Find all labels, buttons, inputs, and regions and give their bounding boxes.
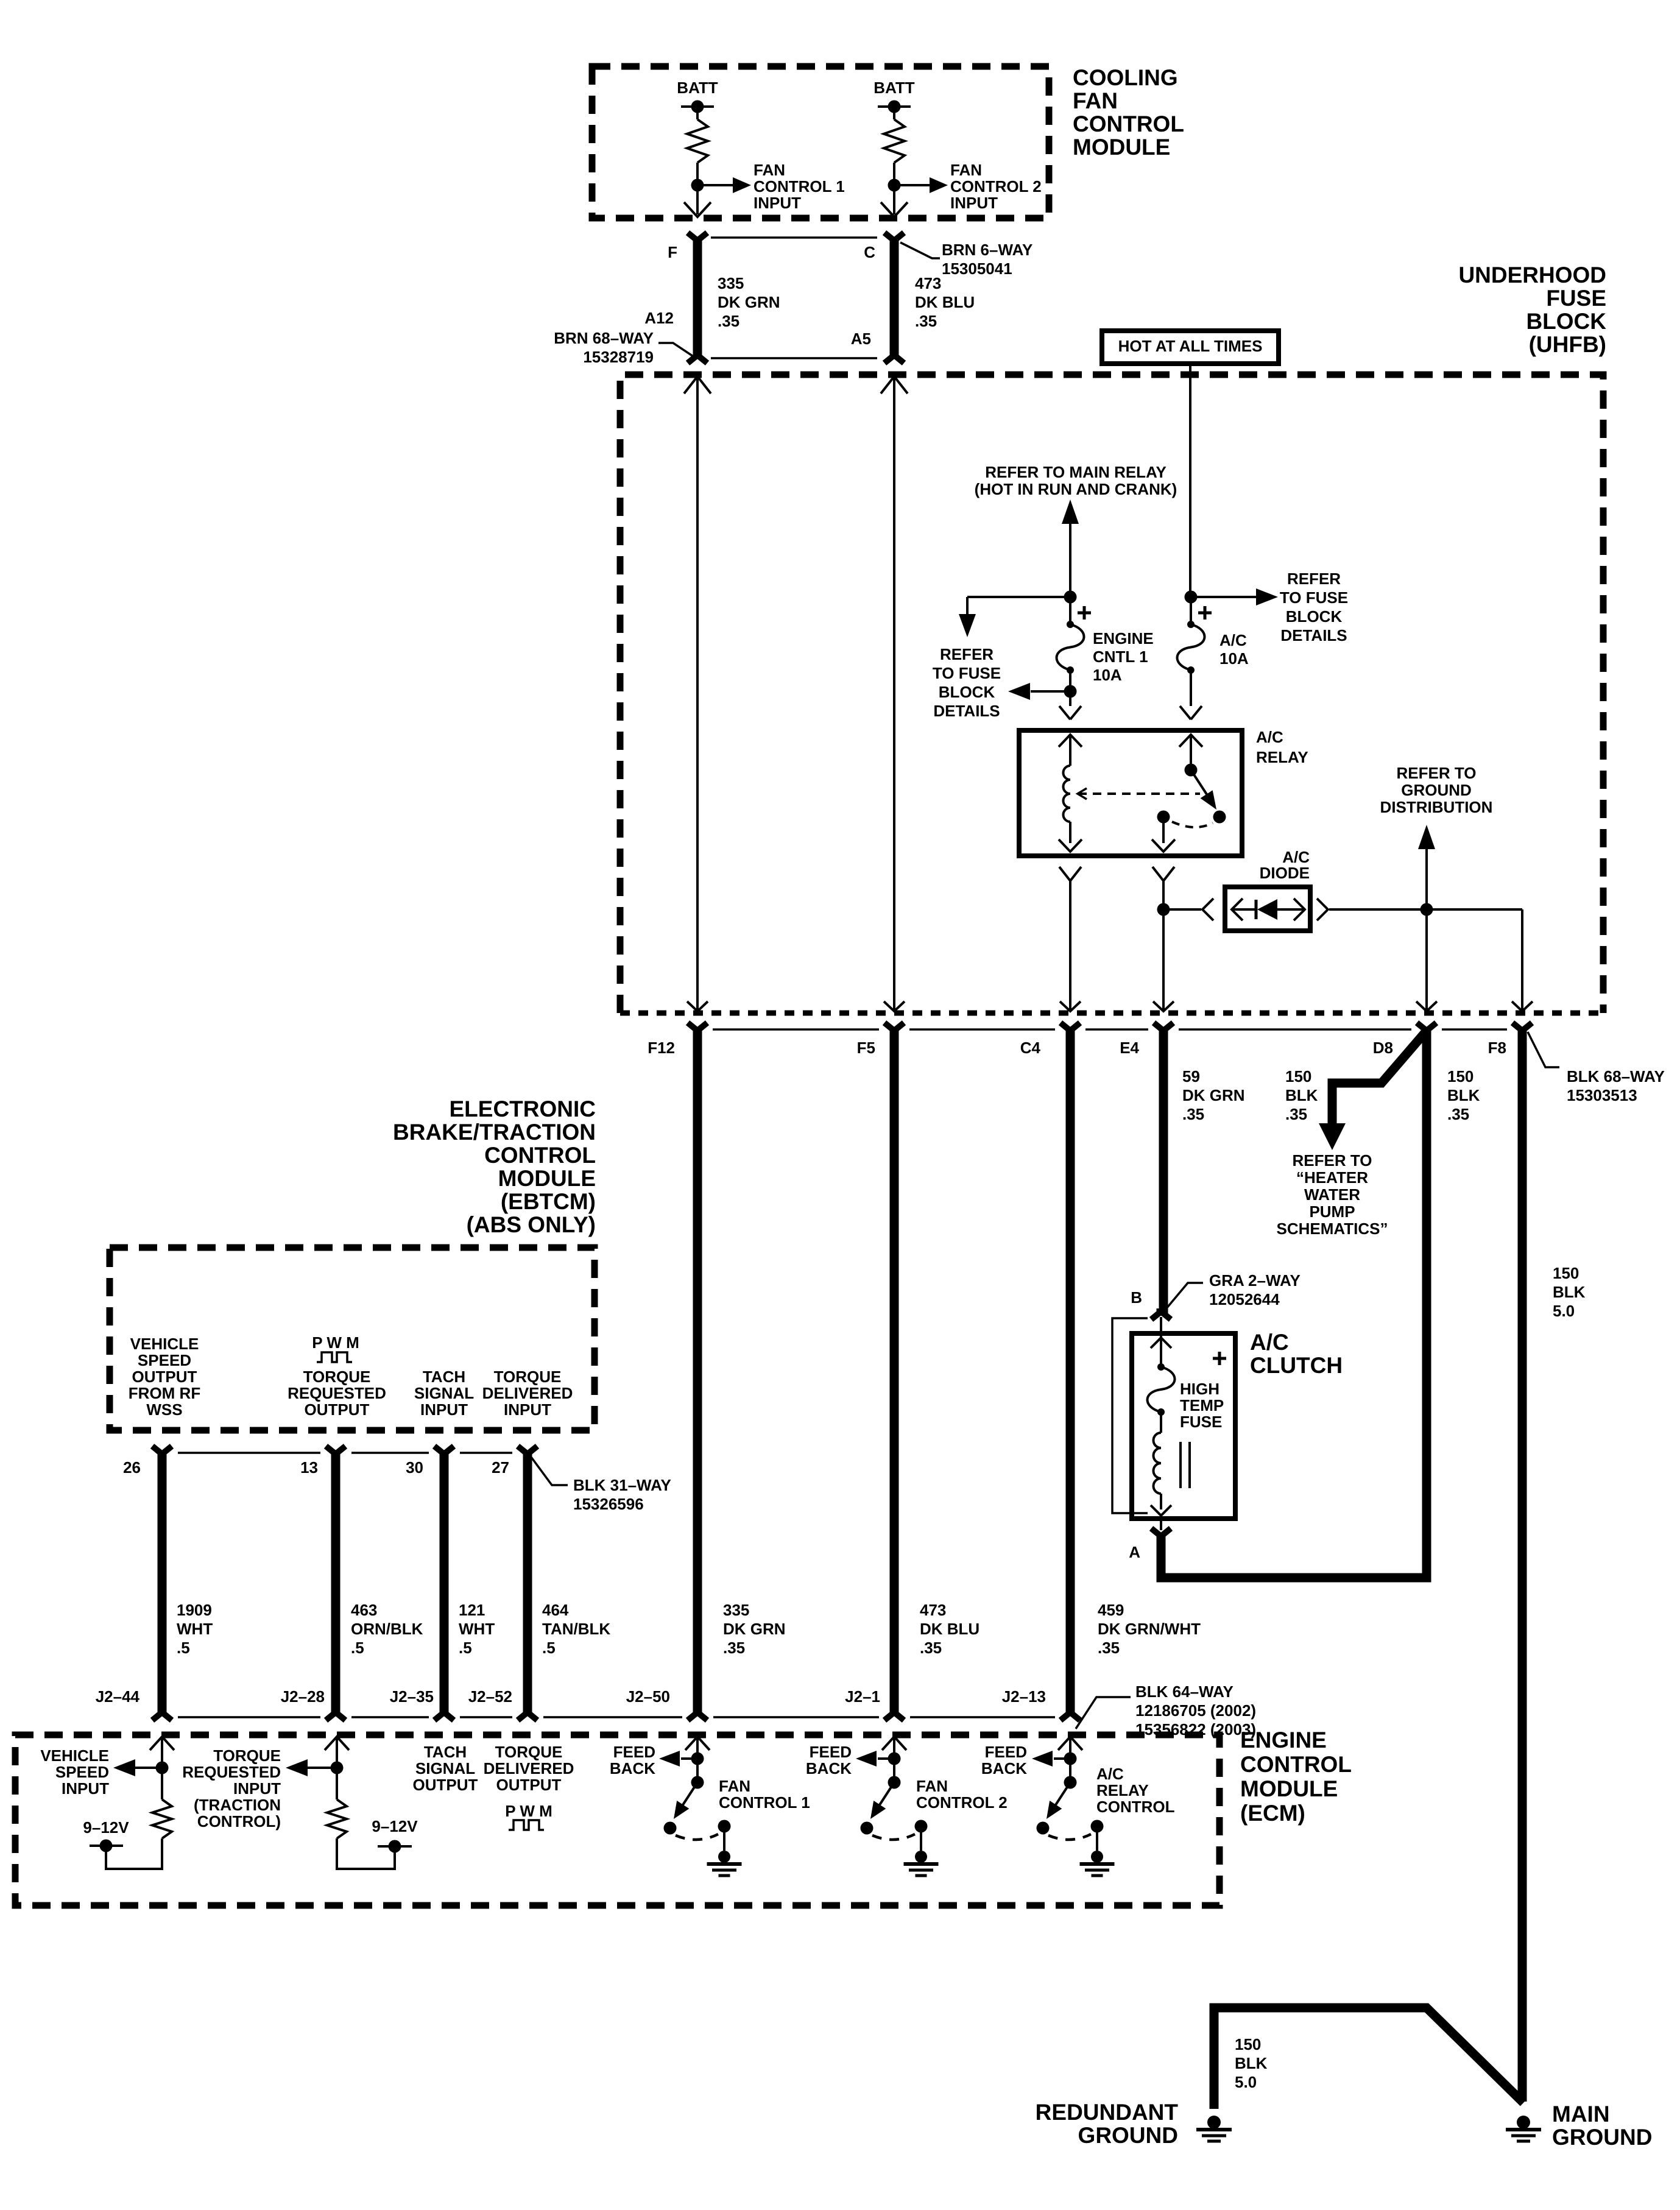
svg-text:REQUESTED: REQUESTED xyxy=(182,1763,281,1781)
svg-text:.5: .5 xyxy=(351,1639,364,1657)
svg-text:CONTROL 1: CONTROL 1 xyxy=(719,1793,810,1812)
wire: D8 down / clutch A return xyxy=(1161,1031,1427,1578)
label: wire 150 BLK 5.0 (ground) xyxy=(1235,2035,1268,2091)
label: wire 150 BLK .35 (D8) xyxy=(1285,1067,1318,1123)
connector pin 30 (EBTCM) xyxy=(406,1446,454,1477)
power tag: HOT AT ALL TIMES xyxy=(1102,331,1279,364)
svg-text:1909: 1909 xyxy=(177,1601,212,1619)
svg-text:INPUT: INPUT xyxy=(420,1400,468,1419)
polarity + clutch xyxy=(1213,1352,1226,1365)
label: A/C RELAY xyxy=(1256,728,1308,766)
wire: junction down to D8 pin xyxy=(1416,916,1437,1011)
svg-text:CONTROL 2: CONTROL 2 xyxy=(950,177,1042,196)
wire: engine cntl output to relay pin xyxy=(1059,697,1081,719)
svg-text:.35: .35 xyxy=(920,1639,942,1657)
svg-text:HIGH: HIGH xyxy=(1180,1380,1219,1398)
svg-text:5.0: 5.0 xyxy=(1235,2073,1257,2091)
label: wire 459 DK GRN/WHT .35 xyxy=(1098,1601,1201,1657)
label: REFER TO GROUND DISTRIBUTION xyxy=(1380,764,1493,816)
connector pin B (GRA 2-WAY) xyxy=(1131,1288,1171,1319)
svg-text:12052644: 12052644 xyxy=(1209,1290,1280,1308)
connector pin F8 xyxy=(1488,1023,1532,1057)
svg-text:A/C: A/C xyxy=(1250,1330,1289,1355)
svg-text:FEED: FEED xyxy=(613,1743,655,1761)
label: wire 150 BLK 5.0 (F8 lower) xyxy=(1553,1264,1586,1320)
label: FAN CONTROL 2 INPUT xyxy=(950,161,1042,212)
svg-text:A: A xyxy=(1129,1543,1140,1561)
svg-text:BACK: BACK xyxy=(981,1759,1027,1778)
wire: pin 26 to J2-44 (1909 WHT) xyxy=(158,1453,167,1713)
svg-text:F12: F12 xyxy=(648,1039,675,1057)
port label: TORQUE DELIVERED INPUT xyxy=(482,1368,573,1419)
svg-text:10A: 10A xyxy=(1093,666,1122,684)
svg-text:VEHICLE: VEHICLE xyxy=(130,1335,199,1353)
wire: relay coil pin to C4 xyxy=(1059,867,1081,1011)
label: wire 335 DK GRN .35 xyxy=(718,274,780,330)
polarity + engine cntl fuse xyxy=(1078,606,1091,620)
svg-text:BLK 31–WAY: BLK 31–WAY xyxy=(573,1476,671,1494)
svg-text:REDUNDANT: REDUNDANT xyxy=(1036,2100,1179,2125)
wire: junction to diode connector xyxy=(1163,908,1201,911)
port label: FEED BACK (3) xyxy=(981,1743,1027,1778)
label: wire 473 DK BLU .35 (lower) xyxy=(920,1601,979,1657)
relay contact travel arc (dashed) xyxy=(1172,822,1213,827)
wire: pin 30 to J2-35 (121 WHT) xyxy=(440,1453,449,1713)
switch: fan control 2 driver xyxy=(856,1737,939,1876)
svg-text:(ECM): (ECM) xyxy=(1240,1801,1305,1826)
label: A/C CLUTCH xyxy=(1250,1330,1343,1378)
svg-text:E4: E4 xyxy=(1120,1039,1139,1057)
wire: branch to fuse block details (right) xyxy=(1191,588,1278,605)
diode A/C (cathode left) xyxy=(1233,899,1304,920)
svg-text:SPEED: SPEED xyxy=(138,1351,191,1369)
svg-text:J2–1: J2–1 xyxy=(845,1687,880,1706)
label: MAIN GROUND xyxy=(1552,2102,1652,2150)
connector pin F12 xyxy=(648,1023,707,1057)
ground: REDUNDANT GROUND xyxy=(1196,2116,1232,2141)
svg-text:GROUND: GROUND xyxy=(1552,2125,1652,2150)
label: wire 1909 WHT .5 xyxy=(177,1601,213,1657)
svg-text:TORQUE: TORQUE xyxy=(495,1743,563,1761)
svg-text:15303513: 15303513 xyxy=(1567,1086,1637,1104)
svg-text:CONTROL 2: CONTROL 2 xyxy=(916,1793,1008,1812)
node: engine cntl fuse output xyxy=(1064,670,1077,698)
svg-text:DK GRN: DK GRN xyxy=(718,293,780,311)
svg-text:SIGNAL: SIGNAL xyxy=(415,1759,475,1778)
label: FAN CONTROL 1 INPUT xyxy=(754,161,845,212)
svg-text:10A: 10A xyxy=(1219,649,1249,668)
node BATT 2 xyxy=(874,79,915,113)
svg-text:CLUTCH: CLUTCH xyxy=(1250,1353,1343,1378)
svg-text:TO FUSE: TO FUSE xyxy=(1280,588,1348,607)
svg-text:WHT: WHT xyxy=(177,1620,213,1638)
pin label F xyxy=(668,243,677,261)
svg-text:150: 150 xyxy=(1285,1067,1311,1086)
svg-text:D8: D8 xyxy=(1373,1039,1393,1057)
wire: diode to ground distribution node xyxy=(1329,908,1427,911)
wire: F8 to main ground (150 BLK) xyxy=(1518,1029,1527,2102)
port label: FEED BACK (2) xyxy=(806,1743,852,1778)
svg-text:F8: F8 xyxy=(1488,1039,1506,1057)
svg-text:REQUESTED: REQUESTED xyxy=(288,1384,386,1402)
node: engine cntl feed junction xyxy=(1064,591,1077,604)
pin label C xyxy=(864,243,875,261)
resistor fan control 1 pull-up xyxy=(687,113,708,179)
svg-text:TO FUSE: TO FUSE xyxy=(933,664,1001,682)
svg-text:.35: .35 xyxy=(1098,1639,1120,1657)
wire: to main relay (arrow up) xyxy=(1062,500,1079,597)
label: REFER TO FUSE BLOCK DETAILS (right) xyxy=(1280,570,1348,644)
svg-text:J2–44: J2–44 xyxy=(96,1687,140,1706)
port label: VEHICLE SPEED INPUT xyxy=(40,1746,109,1798)
label: REFER TO HEATER WATER PUMP SCHEMATICS xyxy=(1277,1151,1388,1238)
pin label A5 xyxy=(851,330,871,348)
svg-text:FUSE: FUSE xyxy=(1180,1413,1222,1431)
label: A/C RELAY CONTROL xyxy=(1096,1765,1175,1816)
node BATT 1 xyxy=(677,79,718,113)
wire: F5 feed-through xyxy=(881,376,908,1011)
svg-text:C4: C4 xyxy=(1020,1039,1041,1057)
svg-text:DETAILS: DETAILS xyxy=(933,702,1000,720)
label: wire 473 DK BLU .35 xyxy=(915,274,975,330)
node: 9-12V source (left) xyxy=(90,1840,123,1852)
wire: connector line bottom xyxy=(711,357,877,359)
fuse: HIGH TEMP FUSE xyxy=(1148,1363,1175,1416)
svg-text:TACH: TACH xyxy=(424,1743,467,1761)
svg-text:121: 121 xyxy=(459,1601,485,1619)
svg-text:.5: .5 xyxy=(459,1639,472,1657)
svg-text:FAN: FAN xyxy=(719,1777,750,1795)
ground: MAIN GROUND xyxy=(1506,2116,1541,2141)
svg-text:OUTPUT: OUTPUT xyxy=(132,1368,197,1386)
svg-text:.35: .35 xyxy=(1285,1105,1307,1123)
svg-text:.35: .35 xyxy=(718,312,739,330)
svg-text:OUTPUT: OUTPUT xyxy=(305,1400,370,1419)
svg-text:B: B xyxy=(1131,1288,1142,1307)
svg-text:BLK 68–WAY: BLK 68–WAY xyxy=(1567,1067,1665,1086)
label: 9-12V (right) xyxy=(372,1817,418,1835)
svg-text:C: C xyxy=(864,243,875,261)
svg-text:OUTPUT: OUTPUT xyxy=(496,1776,562,1794)
connector chevron (diode right inner) xyxy=(1294,898,1305,920)
svg-text:DETAILS: DETAILS xyxy=(1280,626,1347,644)
svg-text:5.0: 5.0 xyxy=(1553,1302,1575,1320)
label: COOLING FAN CONTROL MODULE xyxy=(1073,65,1184,160)
svg-text:REFER TO: REFER TO xyxy=(1397,764,1477,782)
svg-text:BLK: BLK xyxy=(1285,1086,1318,1104)
module box: underhood fuse block xyxy=(620,375,1603,1013)
relay switch common pin (arrow up) xyxy=(1179,735,1202,765)
svg-text:BATT: BATT xyxy=(677,79,718,97)
svg-text:MODULE: MODULE xyxy=(498,1166,596,1191)
node: fan control 1 input junction xyxy=(691,179,704,192)
svg-text:F: F xyxy=(668,243,677,261)
svg-text:BLOCK: BLOCK xyxy=(939,683,995,701)
svg-text:BACK: BACK xyxy=(610,1759,655,1778)
svg-text:BLK 64–WAY: BLK 64–WAY xyxy=(1135,1682,1234,1701)
svg-text:.35: .35 xyxy=(1447,1105,1469,1123)
svg-text:GROUND: GROUND xyxy=(1078,2123,1178,2148)
svg-text:UNDERHOOD: UNDERHOOD xyxy=(1458,263,1606,288)
clutch coil to A pin (arrow down) xyxy=(1151,1494,1171,1516)
port label: FEED BACK (1) xyxy=(610,1743,655,1778)
svg-text:(EBTCM): (EBTCM) xyxy=(501,1189,596,1214)
svg-text:J2–28: J2–28 xyxy=(281,1687,325,1706)
svg-text:J2–13: J2–13 xyxy=(1002,1687,1046,1706)
label: ENGINE CONTROL MODULE (ECM) xyxy=(1240,1728,1352,1826)
label: REFER TO MAIN RELAY (HOT IN RUN AND CRANK) xyxy=(975,463,1177,498)
wire: J2-44 input (arrow into ECM) xyxy=(150,1737,174,1762)
port label: TACH SIGNAL OUTPUT xyxy=(413,1743,478,1794)
svg-text:CONTROL: CONTROL xyxy=(1073,111,1184,136)
svg-text:CONTROL: CONTROL xyxy=(1096,1798,1175,1816)
svg-text:473: 473 xyxy=(915,274,941,292)
svg-text:J2–52: J2–52 xyxy=(468,1687,512,1706)
node: relay N.O. contact xyxy=(1213,811,1226,824)
svg-text:DK GRN: DK GRN xyxy=(1182,1086,1245,1104)
svg-text:CONTROL: CONTROL xyxy=(484,1143,596,1168)
switch: a/c relay control driver xyxy=(1032,1737,1115,1876)
label: ENGINE CNTL 1 10A xyxy=(1093,629,1154,684)
svg-text:473: 473 xyxy=(920,1601,946,1619)
svg-text:J2–50: J2–50 xyxy=(626,1687,670,1706)
clutch plates xyxy=(1181,1442,1190,1488)
svg-text:BLK: BLK xyxy=(1553,1283,1586,1301)
label: ELECTRONIC BRAKE/TRACTION CONTROL MODULE (EBTCM)(ABS ONLY) xyxy=(393,1096,596,1237)
wire: BATT 1 down to pin xyxy=(684,185,711,217)
connector pin 27 (EBTCM) xyxy=(492,1446,537,1477)
port label: PWM (ECM) xyxy=(505,1802,552,1830)
svg-text:PUMP: PUMP xyxy=(1309,1202,1355,1221)
relay coil to bottom pin xyxy=(1059,822,1082,852)
label: A/C DIODE xyxy=(1260,848,1310,882)
svg-text:26: 26 xyxy=(123,1458,141,1477)
wire: E4 to A/C clutch B (59 DK GRN) xyxy=(1159,1029,1168,1316)
svg-text:459: 459 xyxy=(1098,1601,1124,1619)
svg-text:A5: A5 xyxy=(851,330,871,348)
svg-text:BLOCK: BLOCK xyxy=(1286,607,1343,626)
wire: junction to F8 drop xyxy=(1427,909,1533,1011)
svg-text:A/C: A/C xyxy=(1256,728,1283,746)
svg-text:BLOCK: BLOCK xyxy=(1526,309,1606,334)
svg-text:FAN: FAN xyxy=(754,161,785,179)
svg-text:P W M: P W M xyxy=(505,1802,552,1820)
resistor fan control 2 pull-up xyxy=(884,113,905,179)
wire: F12 to J2-50 (335 DK GRN) xyxy=(693,1029,702,1713)
connector pin E4 xyxy=(1120,1023,1173,1057)
clutch coil xyxy=(1154,1412,1162,1494)
connector pin A xyxy=(1129,1519,1171,1561)
svg-text:A/C: A/C xyxy=(1096,1765,1124,1783)
svg-text:TACH: TACH xyxy=(423,1368,465,1386)
label: REDUNDANT GROUND xyxy=(1036,2100,1179,2148)
port label: VEHICLE SPEED OUTPUT FROM RF WSS xyxy=(129,1335,200,1419)
svg-text:150: 150 xyxy=(1447,1067,1474,1086)
label: connector BRN 68-WAY 15328719 xyxy=(554,329,693,366)
svg-text:A12: A12 xyxy=(644,309,674,327)
label: wire 335 DK GRN .35 (lower) xyxy=(723,1601,786,1657)
svg-text:MODULE: MODULE xyxy=(1073,135,1170,160)
wire: from HOT AT ALL TIMES down xyxy=(1189,364,1191,597)
svg-text:TORQUE: TORQUE xyxy=(494,1368,562,1386)
svg-text:FAN: FAN xyxy=(950,161,982,179)
svg-text:15328719: 15328719 xyxy=(583,348,654,366)
connector pin D8 xyxy=(1373,1023,1436,1057)
resistor: vehicle speed pull-down xyxy=(152,1774,172,1838)
pin label A12 xyxy=(644,309,674,327)
wire: F12 feed-through xyxy=(684,376,711,1011)
port label: PWM xyxy=(312,1333,359,1362)
svg-text:CONTROL 1: CONTROL 1 xyxy=(754,177,845,196)
svg-text:CNTL 1: CNTL 1 xyxy=(1093,648,1148,666)
svg-text:464: 464 xyxy=(542,1601,569,1619)
clutch box: A/C CLUTCH xyxy=(1132,1333,1235,1519)
connector pin J2–1 (ECM) xyxy=(845,1687,904,1720)
svg-text:TEMP: TEMP xyxy=(1180,1396,1224,1414)
svg-text:(UHFB): (UHFB) xyxy=(1529,332,1606,357)
label: HIGH TEMP FUSE xyxy=(1180,1380,1224,1431)
fuse: ENGINE CNTL 1 10A xyxy=(1057,603,1084,674)
label: wire 59 DK GRN .35 xyxy=(1182,1067,1245,1123)
wire: branch to fuse block details (left) xyxy=(959,597,1070,637)
wire: C4 to J2-13 (459 DK GRN/WHT) xyxy=(1066,1029,1075,1713)
svg-text:.35: .35 xyxy=(1182,1105,1204,1123)
svg-text:BACK: BACK xyxy=(806,1759,852,1778)
wire: pin 13 to J2-28 (463 ORN/BLK) xyxy=(331,1453,341,1713)
svg-text:FAN: FAN xyxy=(1073,88,1118,113)
svg-text:DIODE: DIODE xyxy=(1260,864,1310,882)
svg-text:MAIN: MAIN xyxy=(1552,2102,1610,2127)
svg-text:SPEED: SPEED xyxy=(55,1763,109,1781)
label: connector GRA 2-WAY 12052644 xyxy=(1166,1271,1301,1309)
wire: J2-28 input (arrow into ECM) xyxy=(325,1737,349,1762)
svg-text:DK BLU: DK BLU xyxy=(920,1620,979,1638)
svg-text:ELECTRONIC: ELECTRONIC xyxy=(450,1096,596,1121)
node: E4 / diode junction xyxy=(1157,903,1170,916)
node: vehicle speed input xyxy=(156,1762,169,1774)
svg-text:GROUND: GROUND xyxy=(1401,781,1472,799)
svg-text:DK BLU: DK BLU xyxy=(915,293,975,311)
connector pin J2–28 (ECM) xyxy=(281,1687,345,1720)
svg-text:SIGNAL: SIGNAL xyxy=(414,1384,474,1402)
svg-text:REFER: REFER xyxy=(940,645,994,663)
svg-text:BLK: BLK xyxy=(1447,1086,1480,1104)
connector chevron (diode left inner) xyxy=(1232,898,1243,920)
svg-text:ORN/BLK: ORN/BLK xyxy=(351,1620,423,1638)
svg-text:FEED: FEED xyxy=(810,1743,852,1761)
svg-text:BRN 68–WAY: BRN 68–WAY xyxy=(554,329,654,347)
svg-text:(ABS ONLY): (ABS ONLY) xyxy=(467,1212,596,1237)
wire: to 9-12V source (right) xyxy=(337,1838,395,1869)
svg-text:FAN: FAN xyxy=(916,1777,948,1795)
svg-text:FEED: FEED xyxy=(985,1743,1027,1761)
wire: B pin into clutch xyxy=(1160,1317,1162,1338)
svg-text:.35: .35 xyxy=(723,1639,745,1657)
svg-text:CONTROL: CONTROL xyxy=(1240,1752,1352,1777)
svg-text:.5: .5 xyxy=(542,1639,556,1657)
svg-text:VEHICLE: VEHICLE xyxy=(40,1746,109,1765)
connector line EBTCM xyxy=(178,1452,512,1454)
svg-text:335: 335 xyxy=(723,1601,749,1619)
node: ground distribution junction xyxy=(1421,903,1433,916)
wire: F5 to J2-1 (473 DK BLU) xyxy=(890,1029,899,1713)
wire: pin 27 to J2-52 (464 TAN/BLK) xyxy=(523,1453,532,1713)
label: wire 150 BLK .35 (F8) xyxy=(1447,1067,1480,1123)
switch: fan control 1 driver xyxy=(659,1737,742,1876)
wire: BATT 2 down to pin xyxy=(881,185,908,217)
svg-text:9–12V: 9–12V xyxy=(83,1818,129,1837)
label: UNDERHOOD FUSE BLOCK (UHFB) xyxy=(1458,263,1606,357)
connector line ECM xyxy=(178,1716,1055,1718)
svg-text:GRA 2–WAY: GRA 2–WAY xyxy=(1209,1271,1301,1290)
relay output pin xyxy=(1152,817,1175,852)
label: wire 463 ORN/BLK .5 xyxy=(351,1601,423,1657)
svg-text:BLK: BLK xyxy=(1235,2054,1268,2072)
svg-text:DK GRN/WHT: DK GRN/WHT xyxy=(1098,1620,1201,1638)
svg-text:15326596: 15326596 xyxy=(573,1495,644,1513)
svg-text:REFER TO MAIN RELAY: REFER TO MAIN RELAY xyxy=(985,463,1166,481)
module box: cooling fan control module xyxy=(592,66,1049,218)
svg-text:335: 335 xyxy=(718,274,744,292)
connector pin F5 xyxy=(857,1023,904,1057)
connector pin 13 (EBTCM) xyxy=(300,1446,345,1477)
svg-text:F5: F5 xyxy=(857,1039,875,1057)
svg-text:13: 13 xyxy=(300,1458,318,1477)
wire: D8 to heater water pump (arrow) xyxy=(1319,1031,1427,1150)
wire: a/c fuse output to relay pin xyxy=(1180,670,1202,719)
svg-text:INPUT: INPUT xyxy=(233,1779,281,1798)
svg-text:RELAY: RELAY xyxy=(1256,748,1308,766)
svg-text:DELIVERED: DELIVERED xyxy=(482,1384,573,1402)
svg-text:DK GRN: DK GRN xyxy=(723,1620,786,1638)
label: REFER TO FUSE BLOCK DETAILS (left) xyxy=(933,645,1001,720)
svg-text:MODULE: MODULE xyxy=(1240,1776,1338,1801)
connector pin J2–44 (ECM) xyxy=(96,1687,172,1720)
svg-text:27: 27 xyxy=(492,1458,509,1477)
node: torque requested input xyxy=(331,1762,344,1774)
svg-text:(TRACTION: (TRACTION xyxy=(194,1796,281,1814)
svg-text:59: 59 xyxy=(1182,1067,1200,1086)
wire: relay output to E4 node xyxy=(1152,867,1174,905)
resistor: torque requested pull-down xyxy=(327,1774,347,1838)
svg-text:REFER TO: REFER TO xyxy=(1293,1151,1372,1170)
svg-text:HOT AT ALL TIMES: HOT AT ALL TIMES xyxy=(1118,337,1263,355)
label: connector BRN 6-WAY 15305041 xyxy=(900,241,1032,278)
svg-text:DELIVERED: DELIVERED xyxy=(484,1759,574,1778)
svg-text:FUSE: FUSE xyxy=(1546,286,1606,311)
node: fan control 2 input junction xyxy=(888,179,901,192)
node: 9-12V source (right) xyxy=(378,1840,412,1853)
connector pin 26 (EBTCM) xyxy=(123,1446,172,1477)
svg-text:TORQUE: TORQUE xyxy=(303,1368,371,1386)
port label: TORQUE DELIVERED OUTPUT xyxy=(484,1743,574,1794)
module box: EBTCM xyxy=(110,1248,595,1430)
svg-text:RELAY: RELAY xyxy=(1096,1781,1149,1799)
relay coil xyxy=(1064,766,1071,822)
connector pin J2–50 (ECM) xyxy=(626,1687,707,1720)
relay actuation dashed link xyxy=(1078,788,1200,799)
clutch input (arrow up) xyxy=(1151,1338,1171,1367)
svg-text:FROM RF: FROM RF xyxy=(129,1384,200,1402)
svg-text:“HEATER: “HEATER xyxy=(1296,1168,1368,1187)
connector chevron (diode right outer) xyxy=(1317,898,1328,920)
connector chevron (diode left outer) xyxy=(1202,898,1213,920)
wire: to 9-12V source xyxy=(106,1838,162,1869)
label: connector BLK 64-WAY 12186705/15356822 xyxy=(1076,1682,1256,1739)
svg-text:9–12V: 9–12V xyxy=(372,1817,418,1835)
svg-text:15305041: 15305041 xyxy=(942,259,1012,278)
label: 9-12V (left) xyxy=(83,1818,129,1837)
